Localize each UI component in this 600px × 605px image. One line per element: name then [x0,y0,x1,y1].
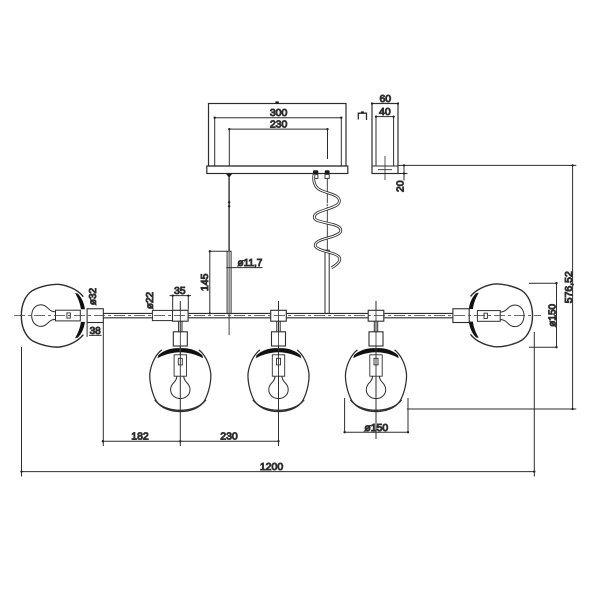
pendant 1 petals [158,348,180,358]
left globe bulb [32,305,56,327]
dim 230 top [228,119,328,166]
svg-text:35: 35 [174,285,186,297]
right globe [471,284,533,347]
right globe petals [469,293,479,309]
left globe petals [75,293,85,309]
pendant 1 inner socket [174,355,186,376]
svg-text:576,52: 576,52 [563,271,575,303]
rod tube right [325,250,329,313]
canopy front view [207,104,348,174]
pendant 3 stem [374,321,377,332]
bar tube [103,313,453,317]
svg-text:38: 38 [90,326,102,337]
svg-text:20: 20 [395,180,407,192]
label o11,7 [226,258,262,269]
pendant 1 socket housing [173,332,187,346]
dim 35 [170,285,192,310]
dim 300 [214,107,343,166]
pendant 3 block [368,310,384,321]
bar sleeve o22 [152,310,172,320]
pendant 2 globe [248,350,309,412]
pendant 2 centerline [278,301,280,446]
pendant 3 inner socket [370,355,382,376]
svg-text:60: 60 [379,93,391,105]
pendant 3 centerline [375,301,377,439]
rod tube left (o11,7) [227,251,231,313]
dim 1200 right extension [533,332,535,477]
right globe bulb [500,305,524,327]
svg-text:1200: 1200 [260,461,284,473]
dim o150 right [529,282,558,348]
dim 1200 left extension [21,347,23,477]
pendant 2 bulb [269,376,288,398]
svg-text:40: 40 [379,106,391,118]
pendant 2 petals [256,348,278,358]
pendant 3 petals [353,348,375,358]
canopy side view [372,104,398,181]
dim 1200 [20,461,535,473]
pendant 2 inner socket [272,355,284,376]
projection symbol [358,111,366,120]
svg-text:230: 230 [220,431,238,443]
right globe collar [453,309,469,323]
pendant 2 stem [277,321,280,332]
svg-text:182: 182 [131,431,149,443]
svg-text:300: 300 [270,107,288,119]
pendant 1 globe [150,350,211,412]
dim 38 [87,323,103,447]
right globe socket [477,311,500,322]
svg-text:ø32: ø32 [88,287,99,305]
dim 20 [395,164,577,192]
pendant 3 socket housing [369,332,383,346]
suspension rod left cone [226,174,232,178]
pendant 2 block [271,310,287,321]
svg-text:ø150: ø150 [547,303,558,326]
bar centerline [14,315,541,317]
dim 40 [375,106,395,118]
dim 60 [371,93,399,105]
canopy mount tick [275,101,278,103]
coiled cord [314,175,341,268]
dim o150 bottom (pendant 3) [343,398,409,434]
suspension rod left wire [228,177,230,252]
left globe collar [87,309,103,323]
pendant 3 bulb [366,376,385,398]
dim 576,52 [407,164,576,410]
svg-text:ø11,7: ø11,7 [238,258,263,269]
dim 182 / 230 bottom [102,431,280,443]
dim 145 [199,250,227,314]
plug left (coiled cord gland) [313,170,318,178]
left globe [21,284,83,347]
svg-text:145: 145 [199,273,211,291]
pendant 1 block [173,310,189,321]
plug right (straight cord gland) [325,170,330,178]
svg-text:230: 230 [270,119,288,131]
straight cord right [326,179,328,251]
svg-text:ø22: ø22 [145,291,156,309]
pendant 1 centerline [179,301,181,446]
pendant 3 globe [345,350,406,412]
left globe socket [56,310,81,321]
pendant 2 socket housing [272,332,286,346]
pendant 1 stem [179,321,182,332]
pendant 1 bulb [171,376,190,398]
